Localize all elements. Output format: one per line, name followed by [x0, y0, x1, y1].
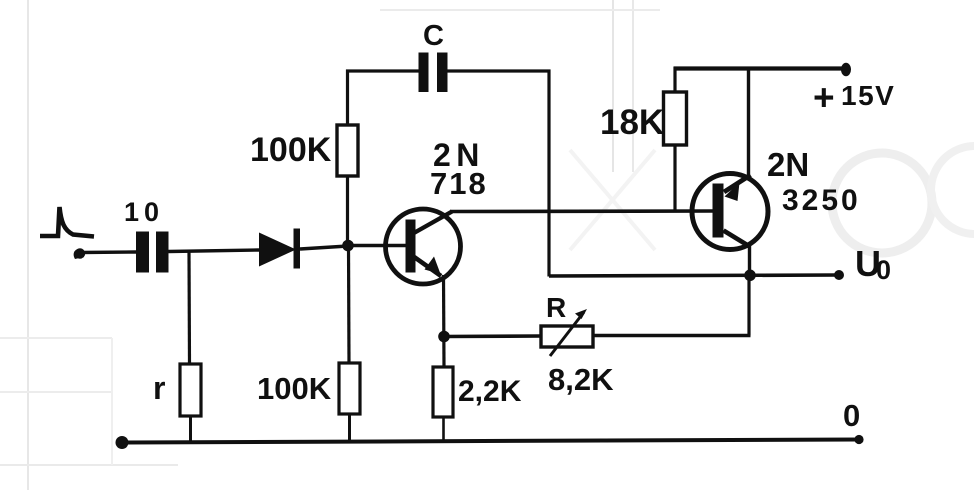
- capacitor C: [419, 53, 448, 93]
- wire resistor R3 to ground rail: [442, 417, 445, 442]
- resistor R1 100K (upper): [337, 125, 358, 176]
- svg-text:r: r: [153, 370, 165, 406]
- label U0: [855, 243, 891, 285]
- wire resistor R2 to ground rail: [348, 414, 351, 442]
- wire rheostat R to riser: [593, 334, 751, 338]
- wire corner to capacitor C left plate: [346, 69, 419, 72]
- U0 output terminal: [834, 270, 844, 280]
- input pulse waveform symbol: [40, 207, 94, 237]
- wire resistor R1 up to corner: [346, 70, 349, 126]
- resistor r: [180, 364, 201, 416]
- resistor R4 18K: [664, 92, 687, 145]
- svg-text:718: 718: [430, 166, 488, 201]
- svg-text:8,2K: 8,2K: [548, 362, 614, 397]
- wire input node down to resistor r: [187, 252, 191, 365]
- input terminal: [74, 248, 86, 259]
- wire node B to rheostat R: [444, 334, 541, 338]
- wire resistor R4 bottom to Q2 base wire: [673, 145, 676, 213]
- node A (Q1 base node) junction dot: [342, 240, 354, 252]
- label +15V: [813, 77, 895, 118]
- node C (output node) junction dot: [744, 270, 756, 282]
- svg-text:R: R: [546, 292, 566, 323]
- resistor R3 2,2K: [433, 367, 453, 417]
- svg-text:2N: 2N: [767, 146, 809, 183]
- svg-text:C: C: [423, 20, 444, 52]
- svg-text:0: 0: [876, 255, 891, 285]
- node B (Q1 emitter node) junction dot: [438, 331, 450, 343]
- resistor R2 100K (lower): [339, 363, 360, 414]
- wire node A down to resistor R2 100K: [347, 246, 351, 364]
- ground rail right terminal dot: [854, 435, 863, 444]
- svg-text:100K: 100K: [257, 371, 332, 406]
- svg-text:10: 10: [124, 197, 164, 227]
- rheostat R adjustment arrow: [550, 309, 587, 356]
- ground rail (0 V): [121, 440, 859, 443]
- wire resistor r to ground rail: [189, 416, 192, 443]
- wire diode D1 to node A: [300, 246, 348, 249]
- +15V terminal: [841, 63, 851, 77]
- output wire to U0 terminal: [549, 275, 839, 276]
- transistor Q2 2N3250 (PNP): [692, 174, 768, 250]
- transistor Q1 2N718 (NPN): [353, 209, 461, 284]
- svg-text:3250: 3250: [782, 184, 861, 217]
- svg-text:15V: 15V: [841, 80, 895, 111]
- svg-text:+: +: [813, 77, 835, 118]
- wire capacitor C1 to diode D1: [169, 250, 260, 252]
- wire Q1 emitter down to node B: [442, 275, 446, 367]
- svg-text:2,2K: 2,2K: [458, 375, 522, 408]
- wire riser up to output node: [747, 275, 750, 336]
- wire Q1 collector to Q2 base: [450, 209, 713, 213]
- wire capacitor C right plate to corner: [448, 69, 551, 72]
- ground rail left terminal dot: [116, 436, 129, 449]
- wire capacitor C down to output node line: [547, 70, 550, 277]
- wire resistor R4 up to supply rail: [673, 67, 676, 92]
- wire Q2 collector down to output node: [748, 246, 751, 276]
- +15V supply rail: [674, 66, 843, 70]
- rheostat R body: [541, 326, 593, 347]
- wire Q2 emitter up to +15V rail: [747, 69, 750, 177]
- svg-text:100K: 100K: [250, 131, 332, 169]
- wire node A up to resistor R1 100K: [346, 176, 349, 246]
- wire input terminal to capacitor C1: [80, 250, 136, 254]
- svg-text:18K: 18K: [600, 103, 664, 142]
- svg-text:0: 0: [843, 398, 860, 433]
- diode D1: [259, 229, 300, 269]
- capacitor C1 (input, 10): [136, 232, 169, 273]
